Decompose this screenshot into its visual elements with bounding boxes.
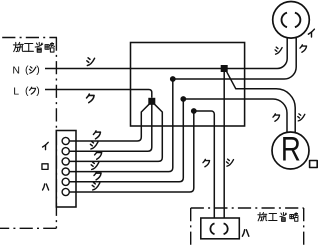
label 施工省略 (top-left) (13, 42, 54, 52)
svg-text:R: R (281, 130, 301, 169)
wire color label ク on switch wire 5 (94, 172, 101, 180)
switch box (terminal block for remote-control relays) (56, 131, 76, 208)
source terminal label L (ku) (13, 85, 40, 97)
wire: switch return 4 (shi) from relay ロ (69, 79, 173, 172)
lamp イ (hanging ceiling socket) (273, 2, 310, 39)
wire label ク at lamp ロ (273, 114, 280, 121)
dash-dot boundary: construction-omitted area bottom-right (191, 208, 304, 246)
svg-text:(: ( (25, 64, 29, 76)
connector node C (dot) (191, 108, 197, 114)
wire: neutral branch from square junction down to lamp ハ (shi) (223, 71, 225, 218)
wire: switched return ロ from node B to lamp ロ (ku) (183, 99, 287, 132)
lamp ハ (ceiling rosette, square type) (201, 218, 240, 239)
wire: switch return 6 (shi) from relay ハ (69, 111, 194, 192)
lamp ロ (lamp receptacle R) (272, 132, 309, 169)
svg-text:(: ( (25, 85, 29, 97)
wire: switched return ハ from node C to lamp ハ (ku) (194, 111, 215, 218)
relay terminal 4 (62, 168, 69, 175)
lamp label ロ (310, 161, 318, 168)
wire color label ク on switch wire 3 (95, 151, 102, 159)
wire label シ at lamp ロ (298, 114, 305, 121)
relay terminal 1 (62, 137, 69, 144)
label 施工省略 (bottom-right) (258, 212, 299, 221)
connector node A (dot) (170, 76, 176, 82)
wire: neutral branch from square junction to lamp ロ (shi) (227, 72, 296, 133)
wire color label シ on switch wire 4 (91, 162, 99, 170)
relay terminal 3 (62, 158, 69, 165)
wire: switch return 2 (shi) from relay イ (69, 104, 152, 151)
relay terminal 2 (62, 148, 69, 155)
svg-text:N: N (12, 65, 20, 77)
wire N (shi) from source through junction box to lamp イ (45, 38, 287, 68)
wire label シ at lamp イ (275, 47, 282, 54)
relay label ロ (42, 164, 48, 170)
lamp label イ (308, 29, 314, 37)
wire label ク at lamp ハ (203, 159, 210, 166)
junction box (outlet box) (131, 43, 245, 127)
wire label シ at lamp ハ (226, 159, 233, 166)
ring-sleeve junction (square) of L feed (148, 98, 155, 105)
source terminal label N (shi) (12, 64, 39, 76)
connector node B (dot) (180, 96, 186, 102)
ring-sleeve junction (square) on N line (221, 65, 228, 72)
wire: switch feed 3 (ku) to relay ロ (69, 104, 162, 162)
wire label ク at lamp イ (300, 45, 307, 52)
wire color label ク on switch wire 1 (93, 131, 100, 139)
relay terminal 6 (62, 188, 69, 195)
svg-text:): ) (36, 85, 40, 97)
wire color label シ on switch wire 6 (92, 182, 100, 190)
svg-text:): ) (36, 64, 40, 76)
wire: switched return イ from node A to lamp イ (ku) (173, 37, 296, 79)
relay label ハ (43, 184, 49, 190)
wire: switch feed 1 (ku) to relay イ (69, 104, 149, 141)
dash-dot boundary: construction-omitted area top-left (0, 38, 57, 229)
relay terminal 5 (62, 178, 69, 185)
svg-text:L: L (13, 85, 19, 97)
relay label イ (43, 142, 49, 149)
wire color label シ on switch wire 2 (90, 141, 98, 149)
wire label ク on L wire (87, 94, 95, 103)
wire label シ on N wire (87, 58, 95, 66)
lamp label ハ (242, 230, 248, 236)
wire: switch feed 5 (ku) to relay ハ (69, 99, 183, 182)
wire L (ku) from source to ring-sleeve junction (45, 90, 152, 98)
